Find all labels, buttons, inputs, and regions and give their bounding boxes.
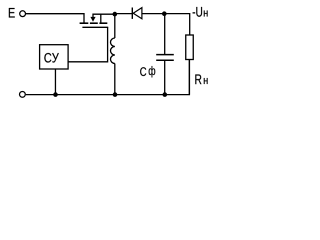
wire СУ to bottom rail — [54, 69, 56, 95]
wire diode to cap node — [142, 13, 164, 15]
label Rн — [195, 74, 201, 84]
bottom rail wire — [26, 60, 190, 95]
transistor VT channel segment 3 — [99, 22, 107, 24]
node dot top (drain-inductor-diode) — [113, 12, 118, 17]
label Сф — [140, 67, 146, 76]
resistor Rн body — [186, 35, 194, 60]
diode VD triangle — [133, 8, 142, 19]
label E — [9, 8, 15, 17]
transistor VT channel segment 1 — [80, 22, 89, 24]
label СУ — [44, 53, 51, 63]
transistor VT source leg — [100, 14, 102, 22]
label -Uн — [193, 12, 195, 13]
node dot capacitor bottom — [163, 92, 168, 97]
inductor L wire top — [114, 14, 116, 38]
terminal output bottom — [20, 92, 26, 98]
node dot capacitor top — [162, 11, 167, 16]
wire source to node — [93, 14, 115, 17]
inductor L wire bottom — [114, 64, 116, 95]
node dot СУ ground — [53, 92, 58, 97]
resistor Rн bottom lead — [188, 60, 190, 95]
wire E to transistor drain — [26, 14, 84, 23]
capacitor Сф top plate — [156, 54, 174, 56]
wire node to diode — [115, 13, 132, 15]
capacitor Сф top lead — [164, 14, 166, 54]
transistor VT substrate arrow — [90, 17, 95, 22]
wire gate to control unit — [68, 27, 107, 62]
control unit СУ box — [40, 45, 69, 69]
transistor VT channel segment 2 — [90, 22, 98, 24]
terminal input E — [20, 11, 26, 17]
capacitor Сф bottom plate — [156, 59, 174, 61]
node dot inductor bottom — [113, 92, 118, 97]
diode VD cathode bar — [131, 8, 133, 19]
inductor L coil — [111, 38, 115, 64]
wire cap node to resistor top — [164, 14, 189, 35]
capacitor Сф bottom lead — [164, 61, 166, 95]
transistor VT gate line — [82, 26, 108, 28]
